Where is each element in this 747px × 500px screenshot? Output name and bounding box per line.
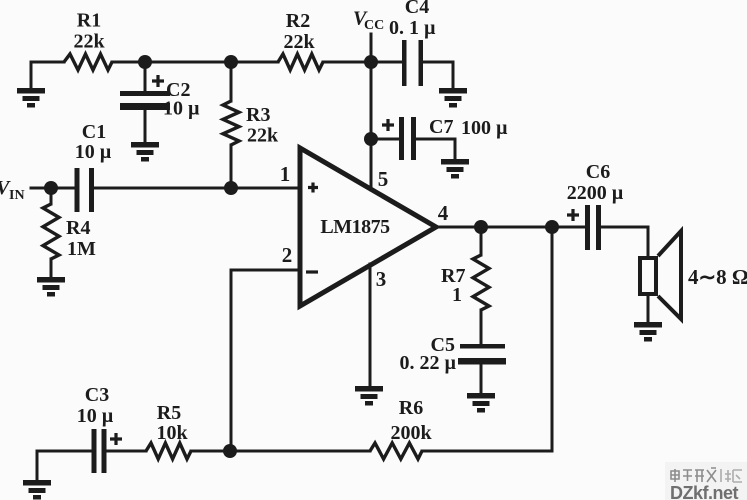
ground (top-left): [17, 88, 45, 108]
label pin 5: [378, 167, 389, 191]
label R2: [286, 10, 310, 32]
node: junction VCC/C7/pin5: [364, 132, 378, 146]
svg-text:22k: 22k: [247, 125, 279, 147]
ground (bottom-left): [23, 480, 51, 500]
label R6 value 200k: [390, 422, 432, 444]
capacitor C5: [458, 344, 506, 394]
wire: top rail right segment: [323, 61, 371, 64]
resistor R6: [370, 443, 422, 459]
resistor R1: [64, 54, 112, 70]
svg-text:C4: C4: [405, 0, 429, 18]
svg-text:CC: CC: [364, 18, 384, 33]
speaker cone: [658, 231, 681, 319]
wire: bottom rail middle: [191, 450, 370, 453]
svg-text:1: 1: [280, 162, 291, 186]
label C5: [431, 334, 455, 356]
label C4 value 0.1u: [389, 17, 436, 39]
ground (C7): [441, 159, 469, 179]
op-amp U1 LM1875 triangle: [300, 148, 436, 306]
label C1: [82, 121, 106, 143]
label C3 value 10u: [77, 405, 114, 427]
wire: pin 2 input: [231, 269, 300, 272]
ground (speaker): [634, 322, 662, 342]
capacitor C7 polarity plus: [382, 119, 394, 131]
svg-text:0. 1 µ: 0. 1 µ: [389, 17, 436, 39]
label VIN: [0, 177, 25, 203]
resistor R7: [473, 227, 489, 344]
watermark DZKF.net: [670, 483, 739, 500]
svg-text:3: 3: [376, 267, 387, 291]
label C6: [586, 161, 610, 183]
svg-text:2: 2: [282, 243, 293, 267]
node: junction output/R6 riser: [545, 220, 559, 234]
label R7: [441, 265, 465, 287]
label C3: [85, 384, 109, 406]
wire: top rail left segment: [31, 62, 64, 89]
node: junction feedback/bottom rail: [223, 444, 237, 458]
svg-text:200k: 200k: [390, 422, 432, 444]
svg-text:DZkf.net: DZkf.net: [670, 483, 739, 500]
label R1: [77, 10, 101, 32]
wire: VCC stem down to pin 5: [370, 34, 373, 190]
resistor R3: [223, 62, 239, 188]
ground (C2): [131, 142, 159, 162]
wire: bottom rail right and riser to output: [422, 227, 552, 451]
svg-text:5: 5: [378, 167, 389, 191]
label R2 value 22k: [283, 31, 315, 53]
ground (C4): [439, 88, 467, 108]
svg-text:C3: C3: [85, 384, 109, 406]
svg-text:22k: 22k: [283, 31, 315, 53]
capacitor C2 polarity plus: [152, 75, 164, 87]
svg-text:C6: C6: [586, 161, 610, 183]
op-amp plus input sign: [308, 183, 318, 193]
capacitor C2: [120, 62, 170, 143]
wire: pin 3 down: [369, 264, 372, 386]
svg-text:4: 4: [438, 201, 449, 225]
capacitor C3 polarity plus: [110, 433, 122, 445]
wire: speaker to ground: [647, 296, 650, 322]
ground (C5): [467, 393, 495, 413]
svg-text:R4: R4: [66, 217, 90, 239]
label pin 1: [280, 162, 291, 186]
svg-text:2200 µ: 2200 µ: [567, 182, 624, 204]
svg-text:R3: R3: [246, 104, 270, 126]
svg-text:R2: R2: [286, 10, 310, 32]
svg-text:10k: 10k: [156, 422, 188, 444]
label speaker impedance 4~8 ohm: [688, 265, 747, 289]
label R6: [399, 397, 423, 419]
watermark background: [665, 462, 747, 500]
capacitor C3: [92, 429, 147, 473]
svg-text:10 µ: 10 µ: [75, 141, 112, 163]
label R4: [66, 217, 90, 239]
label VCC: [353, 8, 384, 34]
label R1 value 22k: [73, 31, 105, 53]
wire: bottom rail left: [37, 451, 91, 480]
resistor R5: [146, 443, 191, 459]
svg-text:10 µ: 10 µ: [163, 98, 200, 120]
svg-text:4∼8 Ω: 4∼8 Ω: [688, 265, 747, 289]
capacitor C4: [371, 40, 453, 89]
svg-text:IN: IN: [9, 188, 25, 203]
wire: feedback riser from bottom rail to pin 2: [230, 270, 233, 451]
label R3: [246, 104, 270, 126]
capacitor C6: [585, 205, 648, 258]
node: junction output/R7: [474, 220, 488, 234]
svg-text:C7: C7: [429, 116, 453, 138]
label R5: [157, 402, 181, 424]
node: junction R1/C2: [138, 55, 152, 69]
resistor R2: [278, 54, 323, 70]
svg-text:C1: C1: [82, 121, 106, 143]
svg-text:1M: 1M: [67, 238, 96, 260]
wire: output from pin 4: [436, 226, 585, 229]
svg-text:R6: R6: [399, 397, 423, 419]
label C6 value 2200u: [567, 182, 624, 204]
label R3 value 22k: [247, 125, 279, 147]
label C1 value 10u: [75, 141, 112, 163]
label C2: [166, 79, 190, 101]
label pin 2: [282, 243, 293, 267]
node: junction R3/pin1 wire: [224, 181, 238, 195]
ground (R4): [37, 277, 65, 297]
capacitor C7: [371, 117, 455, 160]
label C4: [405, 0, 429, 18]
svg-text:0. 22 µ: 0. 22 µ: [399, 352, 456, 374]
wire: top rail middle segment: [112, 61, 278, 64]
svg-text:100 µ: 100 µ: [461, 117, 508, 139]
label C7 value 100u: [461, 117, 508, 139]
svg-text:LM1875: LM1875: [320, 216, 390, 238]
label C5 value 0.22u: [399, 352, 456, 374]
node: junction R3 top: [224, 55, 238, 69]
capacitor C1: [75, 168, 301, 212]
label pin 3: [376, 267, 387, 291]
speaker driver rectangle: [640, 258, 656, 294]
label R4 value 1M: [67, 238, 96, 260]
op-amp minus input sign: [306, 270, 318, 273]
svg-text:10 µ: 10 µ: [77, 405, 114, 427]
resistor R4: [43, 188, 59, 277]
svg-text:1: 1: [452, 284, 462, 306]
label R5 value 10k: [156, 422, 188, 444]
wire: input to C1: [31, 187, 74, 190]
ground (pin 3): [355, 386, 383, 406]
node VCC junction: [364, 55, 378, 69]
node: junction VIN/R4: [44, 181, 58, 195]
svg-text:22k: 22k: [73, 31, 105, 53]
svg-text:R1: R1: [77, 10, 101, 32]
label C7: [429, 116, 453, 138]
label LM1875: [320, 216, 390, 238]
label C2 value 10u: [163, 98, 200, 120]
label pin 4: [438, 201, 449, 225]
svg-text:R5: R5: [157, 402, 181, 424]
label R7 value 1: [452, 284, 462, 306]
watermark chinese glyphs: [671, 468, 716, 482]
capacitor C6 polarity plus: [567, 209, 579, 221]
